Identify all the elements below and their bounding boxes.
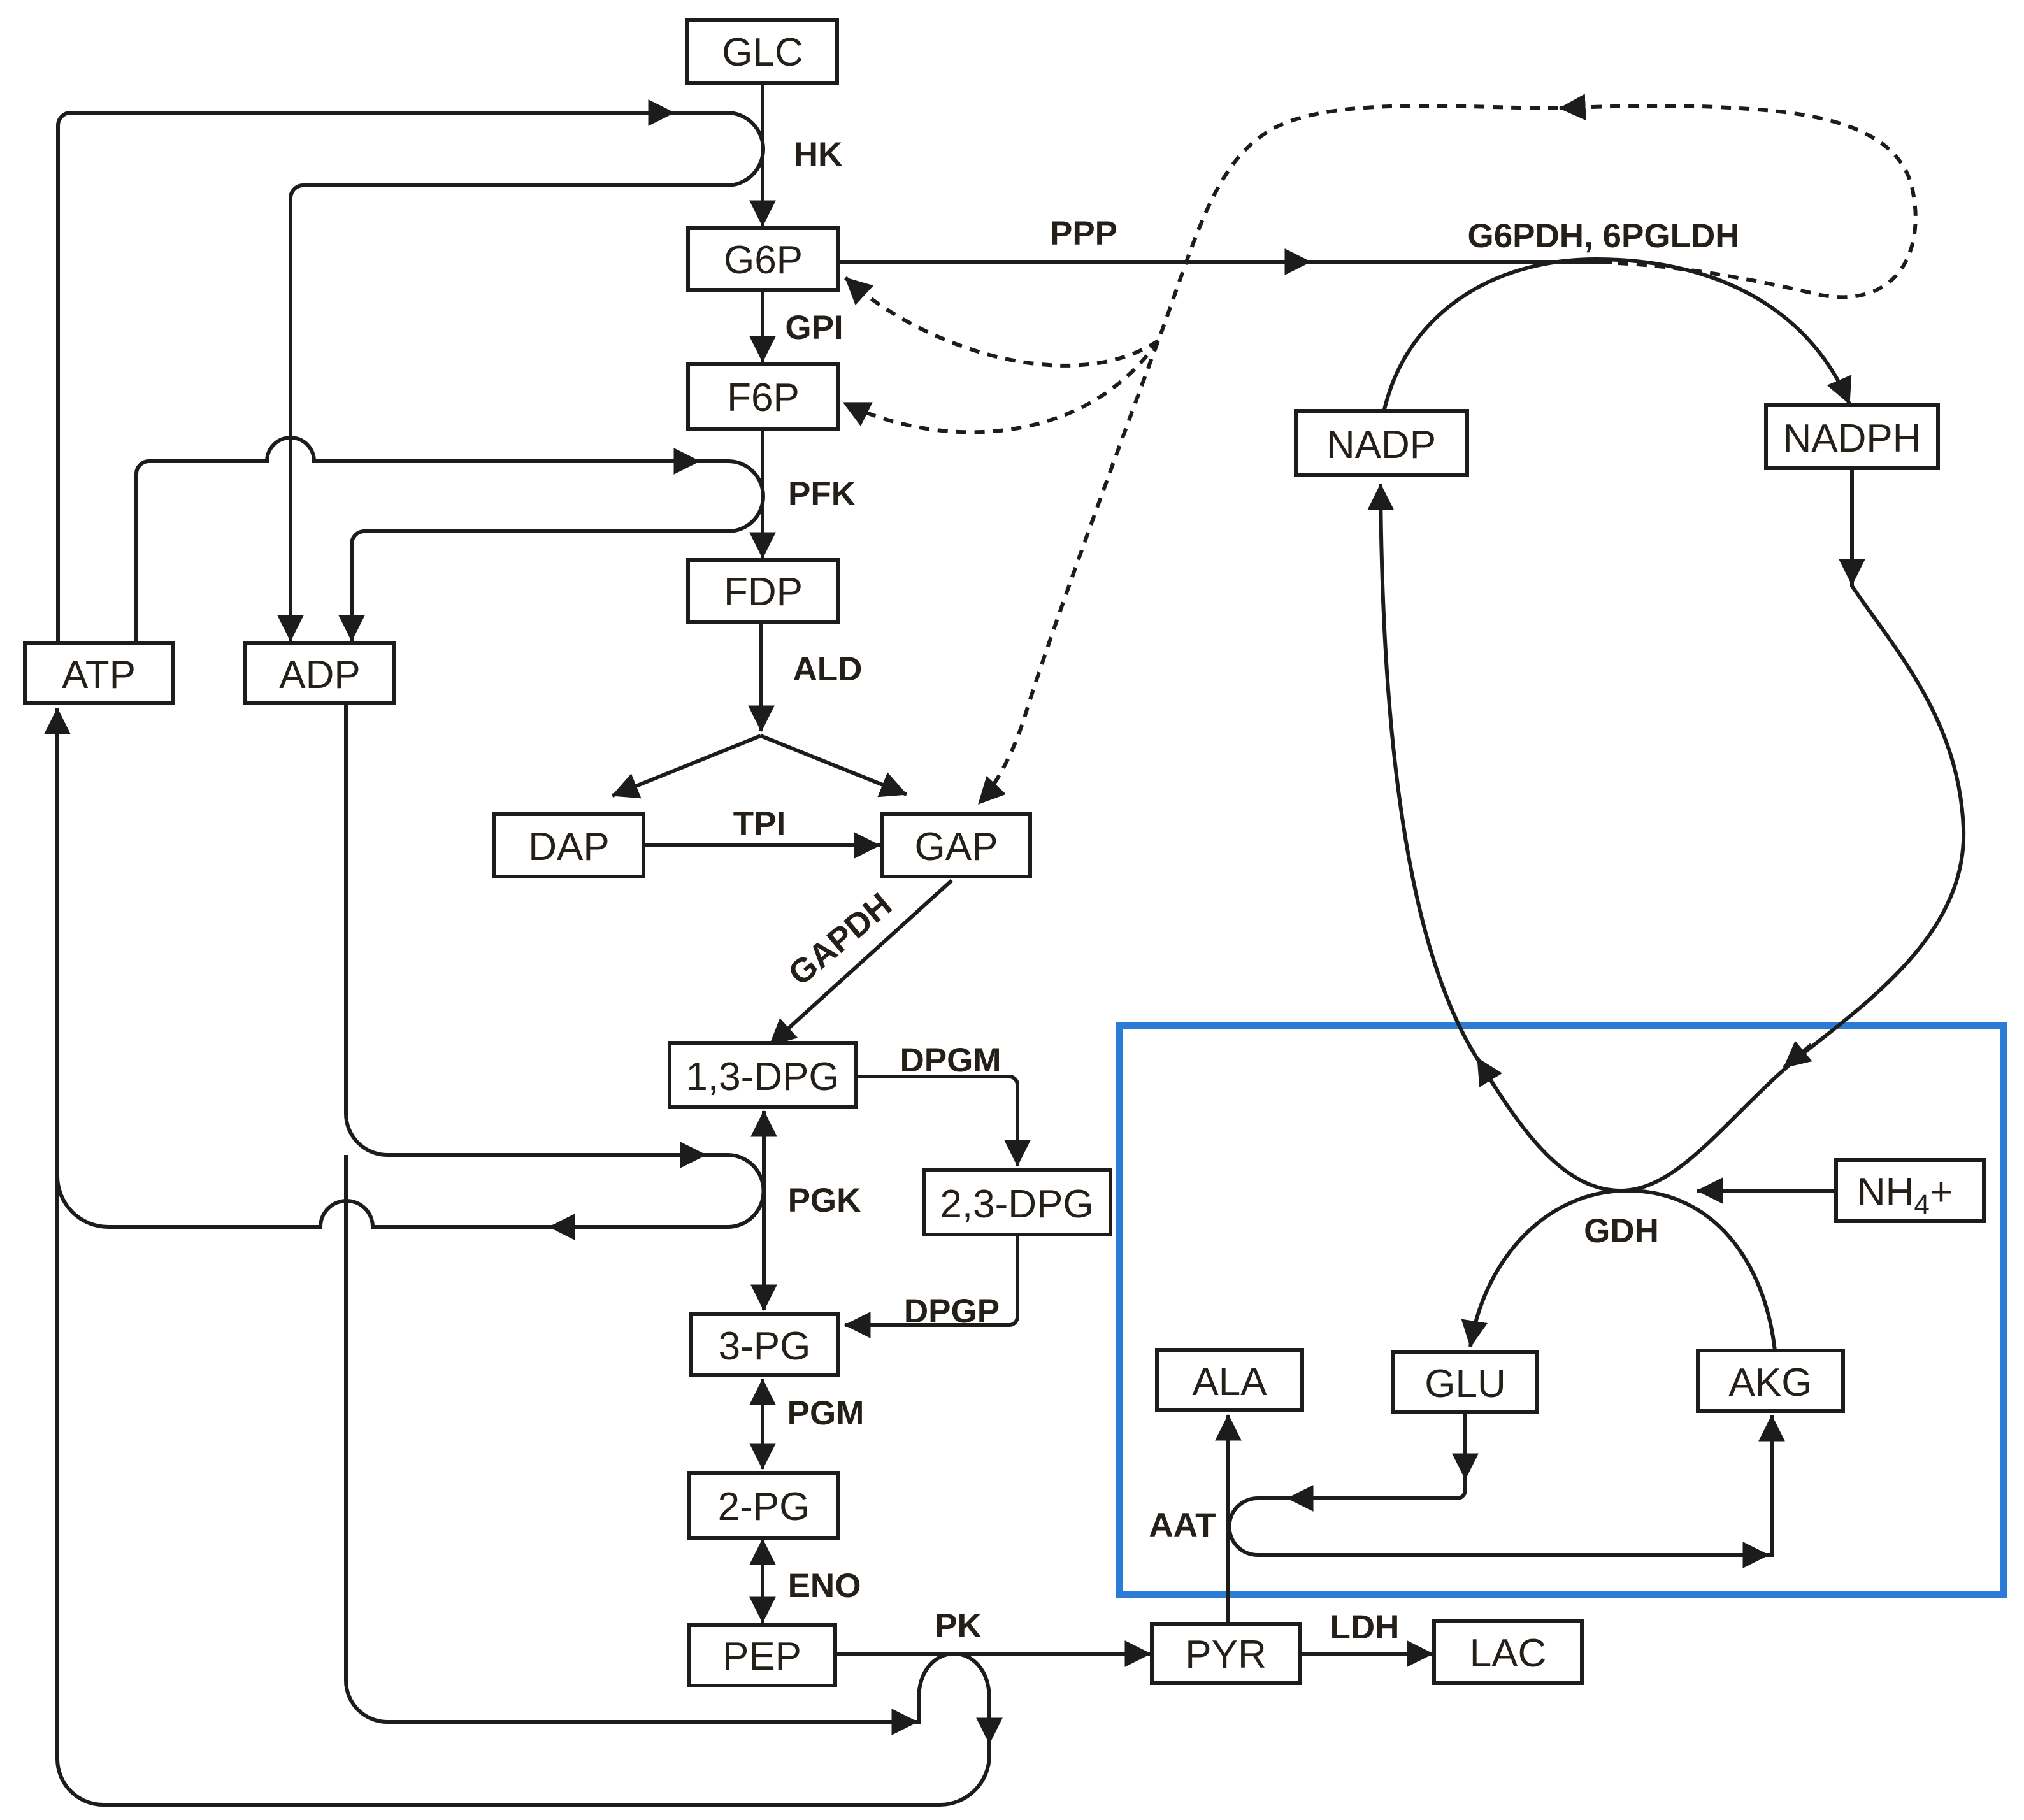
- arrow on GLU down: [1463, 1446, 1467, 1479]
- wire ALD fork to DAP: [612, 736, 761, 796]
- box NADP: [1296, 411, 1467, 475]
- box ALA: [1157, 1350, 1302, 1410]
- svg-text:PGK: PGK: [788, 1182, 861, 1219]
- arrow on PFK feed: [664, 459, 700, 463]
- wire ALD fork to GAP: [761, 736, 907, 794]
- box PYR: [1152, 1624, 1300, 1683]
- svg-text:AKG: AKG: [1729, 1361, 1812, 1405]
- box LAC: [1434, 1621, 1582, 1683]
- wire 2,3-DPG to 3-PG (DPGP): [845, 1235, 1017, 1325]
- box AKG: [1698, 1351, 1843, 1411]
- arrow on AAT lower feed: [1734, 1553, 1769, 1557]
- svg-text:NH4+: NH4+: [1857, 1170, 1953, 1221]
- svg-text:DPGP: DPGP: [904, 1293, 1000, 1330]
- box 2,3-DPG: [924, 1170, 1110, 1235]
- svg-text:GPI: GPI: [785, 309, 843, 347]
- wire G6P to PPP: [838, 260, 1612, 264]
- svg-text:PPP: PPP: [1050, 215, 1117, 252]
- wire G6P to F6P (GPI): [761, 290, 764, 362]
- wire F6P to FDP (PFK): [761, 429, 764, 558]
- svg-text:ATP: ATP: [62, 653, 136, 697]
- arrow on HK feed: [638, 111, 674, 115]
- box ADP: [245, 643, 394, 703]
- svg-text:PYR: PYR: [1185, 1633, 1266, 1677]
- arrow on PPP: [1275, 260, 1310, 264]
- wire PEP to PYR (PK): [835, 1652, 1151, 1656]
- svg-text:FDP: FDP: [724, 570, 803, 614]
- svg-text:G6PDH, 6PGLDH: G6PDH, 6PGLDH: [1467, 217, 1739, 255]
- svg-text:3-PG: 3-PG: [719, 1324, 811, 1368]
- svg-text:2-PG: 2-PG: [718, 1485, 810, 1529]
- svg-text:HK: HK: [794, 136, 843, 173]
- box FDP: [688, 560, 838, 622]
- wire GLU through AAT u-turn to AKG: [1230, 1412, 1772, 1555]
- wire 1,3-DPG to 2,3-DPG (DPGM): [856, 1077, 1017, 1166]
- dashed return left segment to GAP: [979, 106, 1558, 804]
- svg-text:ENO: ENO: [788, 1567, 861, 1605]
- wire 3-PG / 2-PG double arrow (PGM): [761, 1379, 764, 1469]
- dashed PPP return loop: [1560, 106, 1916, 297]
- wire GLC to G6P (HK): [761, 83, 764, 226]
- wire FDP down to ALD fork: [759, 622, 763, 731]
- arrow on NADPH down: [1850, 553, 1854, 585]
- svg-text:GDH: GDH: [1584, 1212, 1659, 1250]
- box GLC: [687, 20, 837, 83]
- svg-text:AAT: AAT: [1149, 1507, 1216, 1544]
- svg-text:ALD: ALD: [793, 650, 863, 688]
- wire PPP dome NADP to NADPH: [1384, 259, 1849, 412]
- svg-text:GAP: GAP: [915, 825, 998, 869]
- svg-text:GAPDH: GAPDH: [781, 885, 899, 992]
- wire GAP to 1,3-DPG (GAPDH): [770, 880, 952, 1045]
- svg-text:PK: PK: [935, 1607, 982, 1645]
- svg-text:DAP: DAP: [528, 825, 609, 869]
- svg-text:NADPH: NADPH: [1783, 417, 1921, 461]
- svg-text:PGM: PGM: [787, 1394, 865, 1432]
- svg-text:DPGM: DPGM: [900, 1042, 1001, 1079]
- wire 1,3-DPG / 3-PG double arrow (PGK): [762, 1111, 766, 1310]
- wire PYR to LAC (LDH): [1300, 1652, 1433, 1656]
- box NADPH: [1766, 405, 1938, 468]
- wire PYR up to ALA (AAT): [1226, 1415, 1230, 1624]
- box DAP: [494, 814, 643, 877]
- svg-text:PEP: PEP: [722, 1635, 801, 1679]
- wire AKG substrate arch to GLU: [1470, 1191, 1775, 1351]
- wire ATP to PFK cofactor loop to ADP with hop: [136, 438, 763, 642]
- svg-text:PFK: PFK: [788, 475, 856, 513]
- box 1,3-DPG: [670, 1043, 856, 1107]
- svg-text:NADP: NADP: [1326, 423, 1436, 467]
- wire NH4 to GDH: [1697, 1189, 1836, 1193]
- wire DAP to GAP (TPI): [643, 843, 880, 847]
- box F6P: [688, 364, 838, 429]
- arrow on PGK feed: [670, 1153, 706, 1157]
- svg-text:1,3-DPG: 1,3-DPG: [685, 1055, 839, 1099]
- arrow on NADPH leg at blue edge: [1784, 1045, 1811, 1068]
- box GLU: [1393, 1352, 1537, 1412]
- wire 2-PG / PEP double arrow (ENO): [761, 1539, 764, 1623]
- dashed branch to F6P: [843, 341, 1158, 432]
- svg-text:LAC: LAC: [1470, 1631, 1547, 1675]
- dashed branch to G6P: [845, 278, 1158, 366]
- svg-text:G6P: G6P: [724, 238, 803, 282]
- svg-text:2,3-DPG: 2,3-DPG: [940, 1182, 1093, 1226]
- svg-text:LDH: LDH: [1330, 1609, 1400, 1646]
- box GAP: [882, 814, 1030, 877]
- svg-text:GLU: GLU: [1425, 1362, 1505, 1406]
- svg-text:TPI: TPI: [733, 805, 786, 843]
- svg-text:ALA: ALA: [1192, 1360, 1267, 1404]
- box G6P: [688, 228, 838, 290]
- arrow on AAT upper return: [1288, 1496, 1322, 1500]
- arrow on PGK return: [549, 1225, 585, 1229]
- wire NADPH shuttle U-curve to NADP: [1381, 468, 1963, 1191]
- arrow on PK return leg: [987, 1710, 991, 1744]
- blue compartment box: [1119, 1026, 2004, 1594]
- svg-text:GLC: GLC: [722, 31, 803, 75]
- svg-text:ADP: ADP: [279, 653, 360, 697]
- arrow on NADP leg at blue edge: [1477, 1058, 1495, 1087]
- box ATP: [25, 643, 173, 703]
- svg-text:F6P: F6P: [727, 376, 800, 420]
- box 2-PG: [689, 1473, 838, 1538]
- arrow on PK feed: [883, 1720, 917, 1724]
- box PEP: [689, 1625, 835, 1686]
- wire ATP to HK cofactor loop to ADP: [58, 113, 763, 642]
- box 3-PG: [691, 1314, 838, 1375]
- wire ADP to PGK cofactor loop to ATP with hop: [57, 703, 764, 1227]
- wire ADP to PK cofactor loop to ATP: [57, 708, 989, 1805]
- box NH4+: [1836, 1160, 1984, 1221]
